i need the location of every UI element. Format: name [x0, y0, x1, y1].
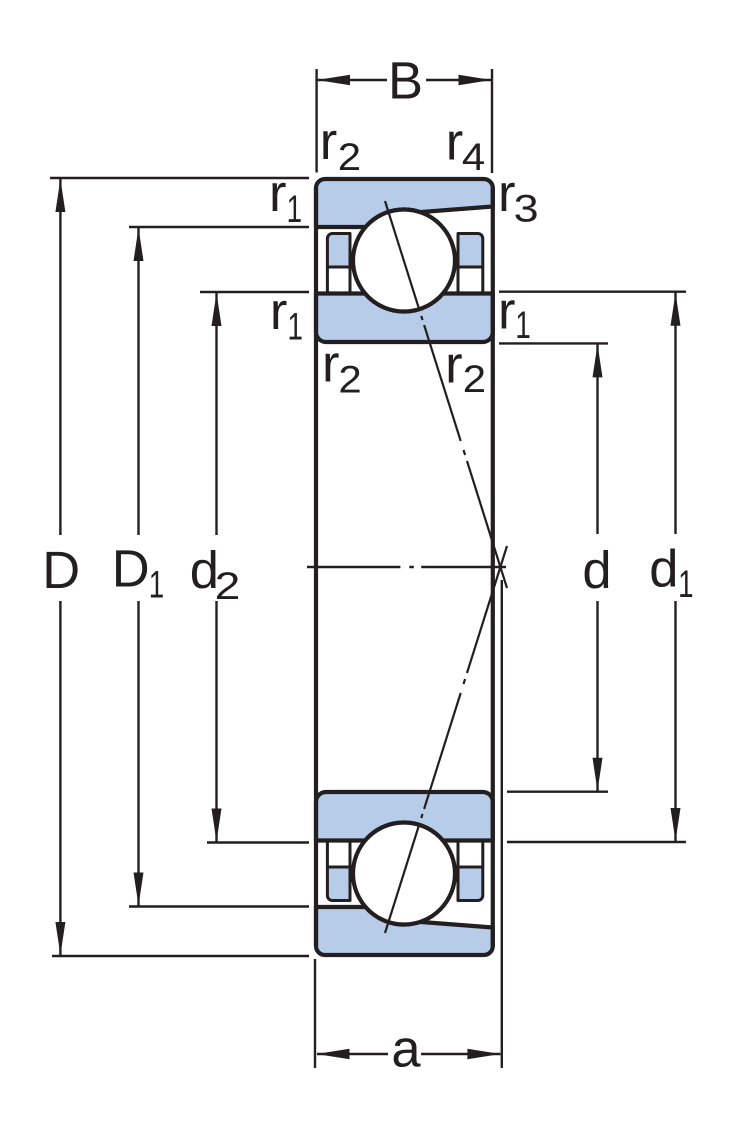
svg-text:r: r: [269, 164, 286, 223]
svg-text:d: d: [649, 539, 678, 598]
svg-text:2: 2: [338, 136, 361, 179]
D1 arrow down: [134, 873, 144, 906]
bottom bearing section (mirror): [316, 792, 493, 955]
svg-text:3: 3: [514, 188, 539, 231]
contact angle line top (dash-dot): [385, 201, 507, 588]
B extension lines: [317, 69, 492, 173]
d arrow up: [593, 344, 603, 377]
svg-text:r: r: [498, 281, 515, 340]
a arrow right: [467, 1049, 500, 1059]
left face line: [314, 188, 318, 946]
a arrow left: [317, 1049, 350, 1059]
svg-text:2: 2: [215, 565, 241, 608]
svg-text:2: 2: [463, 358, 486, 401]
svg-text:1: 1: [149, 563, 164, 606]
D arrow up: [55, 179, 65, 212]
D1 extension line bottom: [129, 905, 309, 907]
D arrow down: [55, 922, 65, 955]
d2 dimension line: [215, 292, 217, 843]
right face line: [491, 188, 495, 946]
D extension line bottom: [52, 955, 309, 957]
top bearing section: [316, 179, 493, 342]
svg-text:r: r: [446, 113, 463, 172]
center axis line (dash-dot): [307, 566, 506, 568]
d2 extension line bottom: [207, 841, 309, 843]
D1 arrow up: [134, 228, 144, 261]
d extension line top: [499, 342, 608, 344]
svg-text:1: 1: [678, 563, 693, 606]
d arrow down: [593, 758, 603, 791]
d dimension line: [596, 343, 598, 791]
D1 extension line top: [129, 226, 309, 228]
a dimension line: [317, 1053, 500, 1055]
svg-text:r: r: [322, 334, 339, 393]
B arrow right: [459, 75, 492, 85]
d2 extension line top: [200, 291, 309, 293]
svg-text:D: D: [42, 541, 80, 600]
d extension line bottom: [507, 791, 608, 793]
svg-text:D: D: [112, 539, 150, 598]
svg-text:d: d: [582, 541, 611, 600]
d1 extension line bottom: [507, 841, 686, 843]
D extension line top: [50, 177, 309, 179]
svg-text:r: r: [270, 282, 287, 341]
a extension lines: [315, 580, 502, 1068]
d2 arrow up: [212, 293, 222, 326]
D1 dimension line: [137, 227, 139, 907]
svg-text:1: 1: [287, 188, 302, 231]
d2 arrow down: [212, 809, 222, 842]
d1 arrow up: [671, 293, 681, 326]
svg-text:4: 4: [462, 136, 485, 179]
svg-text:r: r: [445, 335, 462, 394]
D dimension line: [59, 178, 61, 956]
B dimension line: [317, 79, 492, 81]
d1 extension line top: [499, 291, 686, 293]
B arrow left: [317, 75, 350, 85]
svg-text:1: 1: [515, 304, 530, 347]
svg-text:1: 1: [288, 306, 303, 349]
d1 dimension line: [674, 292, 676, 842]
contact angle line bottom (dash-dot): [385, 546, 507, 933]
svg-text:a: a: [391, 1020, 421, 1079]
svg-text:B: B: [388, 52, 423, 111]
svg-text:2: 2: [338, 358, 361, 401]
svg-text:r: r: [320, 112, 337, 171]
d1 arrow down: [671, 808, 681, 841]
